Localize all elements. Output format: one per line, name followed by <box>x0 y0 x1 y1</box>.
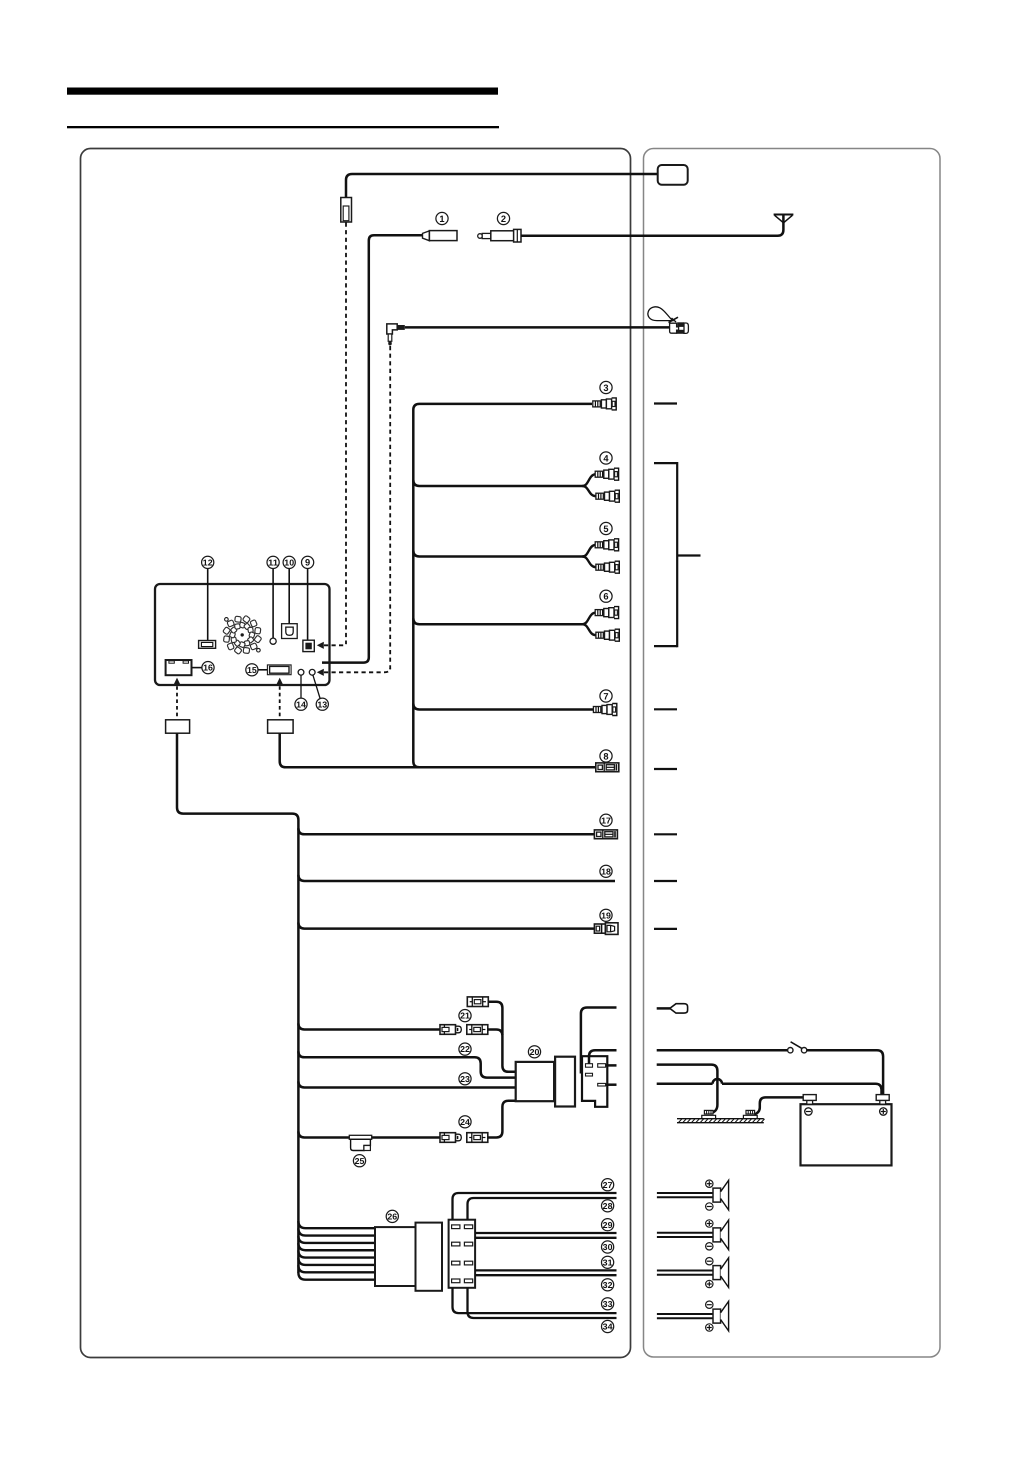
svg-text:13: 13 <box>317 699 327 709</box>
svg-text:24: 24 <box>460 1117 470 1127</box>
svg-text:17: 17 <box>601 815 611 825</box>
svg-text:29: 29 <box>603 1220 613 1230</box>
svg-text:14: 14 <box>296 699 306 709</box>
svg-text:26: 26 <box>387 1212 397 1222</box>
svg-text:15: 15 <box>247 665 257 675</box>
svg-text:27: 27 <box>603 1180 613 1190</box>
svg-text:3: 3 <box>603 383 608 393</box>
svg-text:22: 22 <box>460 1044 470 1054</box>
svg-text:19: 19 <box>601 910 611 920</box>
svg-text:11: 11 <box>268 558 278 568</box>
svg-text:16: 16 <box>203 663 213 673</box>
svg-text:31: 31 <box>603 1257 613 1267</box>
svg-text:28: 28 <box>603 1201 613 1211</box>
svg-text:33: 33 <box>603 1299 613 1309</box>
svg-text:9: 9 <box>305 558 310 568</box>
svg-text:12: 12 <box>203 558 213 568</box>
svg-text:8: 8 <box>603 751 608 761</box>
svg-text:20: 20 <box>530 1047 540 1057</box>
svg-text:23: 23 <box>460 1074 470 1084</box>
svg-text:4: 4 <box>603 453 609 463</box>
svg-text:30: 30 <box>603 1242 613 1252</box>
svg-text:32: 32 <box>603 1280 613 1290</box>
svg-text:2: 2 <box>501 214 506 224</box>
svg-text:5: 5 <box>603 524 608 534</box>
svg-text:25: 25 <box>355 1156 365 1166</box>
svg-text:1: 1 <box>439 214 444 224</box>
svg-text:10: 10 <box>284 558 294 568</box>
svg-text:34: 34 <box>603 1322 613 1332</box>
svg-text:18: 18 <box>601 866 611 876</box>
svg-text:7: 7 <box>603 691 608 701</box>
svg-text:6: 6 <box>603 592 608 602</box>
svg-text:21: 21 <box>460 1011 470 1021</box>
